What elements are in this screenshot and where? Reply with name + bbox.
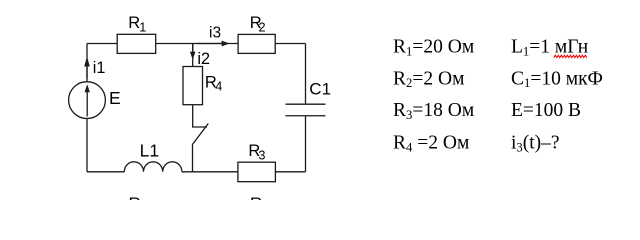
svg-text:i3: i3	[209, 25, 221, 42]
svg-text:2: 2	[259, 20, 266, 34]
svg-text:i2: i2	[197, 50, 210, 68]
svg-text:C1: C1	[309, 79, 331, 98]
svg-text:C1=10 мкФ: C1=10 мкФ	[511, 68, 603, 90]
svg-text:R2=2 Ом: R2=2 Ом	[393, 68, 464, 90]
svg-text:R: R	[129, 194, 141, 200]
svg-text:R: R	[250, 194, 262, 200]
svg-text:1: 1	[139, 20, 146, 34]
svg-text:E=100 В: E=100 В	[511, 100, 581, 121]
svg-text:i1: i1	[93, 59, 106, 77]
svg-text:R3=18 Ом: R3=18 Ом	[393, 100, 474, 122]
svg-text:i3(t)–?: i3(t)–?	[511, 133, 560, 155]
svg-text:E: E	[109, 88, 121, 108]
svg-text:R1=20 Ом: R1=20 Ом	[393, 36, 474, 58]
svg-text:L1: L1	[140, 141, 159, 161]
svg-text:4: 4	[215, 80, 222, 94]
svg-text:3: 3	[258, 148, 265, 162]
svg-text:R4 =2 Ом: R4 =2 Ом	[393, 133, 469, 155]
